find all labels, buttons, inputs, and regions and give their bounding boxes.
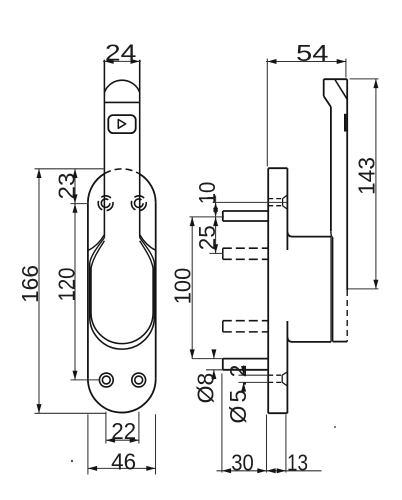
top screw hole cone base xyxy=(282,199,284,206)
bottom hole right inner xyxy=(135,376,143,384)
arrow 100 bottom xyxy=(190,349,195,358)
svg-text:22: 22 xyxy=(111,418,136,444)
arrow 143 top xyxy=(373,79,378,88)
arrow 120 top xyxy=(73,204,78,213)
ext line 30-13 middle xyxy=(266,415,268,473)
dim line 24 xyxy=(103,60,141,62)
arrow 24 left xyxy=(104,59,113,64)
dim line 30 and 13 xyxy=(217,470,322,472)
svg-text:Ø8: Ø8 xyxy=(192,373,218,404)
flare curve right outer xyxy=(140,235,156,251)
flare curve left mid xyxy=(90,238,105,263)
flare curve right mid xyxy=(140,238,155,263)
arrow dia8 top xyxy=(211,349,216,358)
blade lower left face line a xyxy=(330,238,332,342)
plate top arc hidden behind slider (dashed) xyxy=(104,169,139,174)
speck 1 xyxy=(71,460,73,462)
plate right edge xyxy=(155,203,157,379)
blade left fillet to lower face xyxy=(331,231,333,237)
arrow 22 right xyxy=(130,438,139,443)
top hole right outer (dashed) xyxy=(131,196,146,211)
svg-text:166: 166 xyxy=(17,265,43,303)
plate top arc left solid xyxy=(88,174,105,203)
arrow 25 top xyxy=(213,217,218,226)
svg-text:120: 120 xyxy=(54,268,80,302)
dim line 100 xyxy=(191,217,193,359)
upper ledge with fillet xyxy=(287,232,331,237)
svg-text:Ø5.2: Ø5.2 xyxy=(225,362,251,424)
arrow 22 left xyxy=(106,438,115,443)
arrow 23 top xyxy=(73,169,78,178)
ext line 54 left xyxy=(266,59,268,167)
blade left face upper xyxy=(323,79,325,96)
ext line 143 top xyxy=(350,78,379,80)
arrow 10 bottom xyxy=(213,208,218,217)
center line upper hidden stud xyxy=(210,252,224,254)
upper hidden stud end cap xyxy=(222,248,224,259)
arrow 30 left xyxy=(222,468,231,473)
lower stud bottom line xyxy=(223,369,268,371)
svg-text:100: 100 xyxy=(169,268,195,305)
arrow 13 left xyxy=(267,468,276,473)
dim line 46 xyxy=(88,467,156,469)
arrow 25 bottom xyxy=(213,244,218,253)
ext line 13 right xyxy=(285,415,287,473)
upper hidden stud bottom (dashed) xyxy=(223,258,268,260)
svg-text:25: 25 xyxy=(194,225,220,250)
arrow 30 right xyxy=(257,468,266,473)
top screw hole lower (dashed) xyxy=(268,205,282,207)
button rounded square xyxy=(108,115,135,133)
bottom screw hole cone base xyxy=(281,375,283,382)
top screw hole cone lower diagonal xyxy=(283,206,287,209)
top hole left outer (dashed) xyxy=(98,196,113,211)
ext line lower stud top for 100 xyxy=(192,358,223,360)
lower hidden stud end cap xyxy=(222,321,224,332)
lower stud end cap xyxy=(222,359,224,370)
arrow 166 bottom xyxy=(37,404,42,413)
arrow 46 left xyxy=(88,466,97,471)
ext line stud bottom for dia8 xyxy=(206,369,223,371)
blade left face mid xyxy=(330,107,332,231)
speck artifacts xyxy=(71,426,336,462)
side plate bottom edge xyxy=(268,412,287,414)
side plate right face upper xyxy=(286,168,288,250)
leader tick 10 xyxy=(208,197,216,199)
svg-text:10: 10 xyxy=(194,182,220,205)
svg-text:30: 30 xyxy=(231,449,254,475)
dim line 22 xyxy=(106,439,139,441)
svg-text:143: 143 xyxy=(353,157,379,195)
slider dome arc xyxy=(104,80,139,92)
bottom screw hole lower (dashed) xyxy=(268,381,282,383)
dim line dia8 xyxy=(213,350,215,380)
svg-text:13: 13 xyxy=(287,449,308,475)
arrow 54 right xyxy=(337,59,346,64)
play triangle xyxy=(118,120,125,129)
dim line 54 xyxy=(266,61,347,63)
arrow 54 left xyxy=(267,59,276,64)
slider right edge xyxy=(139,60,141,238)
ext line plate top xyxy=(35,168,104,170)
blade notch mark xyxy=(344,114,346,132)
flare curve right inner xyxy=(140,241,153,269)
oval recess outer xyxy=(90,263,155,349)
upper stud bottom line xyxy=(223,220,268,222)
top screw hole upper (dashed) xyxy=(268,198,282,200)
slider dome chord xyxy=(104,101,139,103)
arrow dia5.2 top xyxy=(241,366,246,375)
arrow 10 top xyxy=(213,202,218,211)
arrow 166 top xyxy=(37,169,42,178)
dim line dia5.2 xyxy=(243,366,245,393)
blade top edge xyxy=(324,78,348,80)
speck 2 xyxy=(334,426,336,428)
svg-text:46: 46 xyxy=(111,448,136,474)
blade right face hidden (dashed) xyxy=(346,290,348,342)
dim line 23 and 120 xyxy=(74,169,76,380)
bottom hole left outer xyxy=(99,373,113,387)
blade lower left face line b xyxy=(332,237,334,341)
lower hidden stud top (dashed) xyxy=(223,320,268,322)
dim line 10 and 25 xyxy=(215,196,217,254)
arrow 120 bottom xyxy=(73,371,78,380)
flare curve left outer xyxy=(88,235,104,251)
plate top arc right solid xyxy=(140,174,156,203)
arrow 13 right xyxy=(277,468,286,473)
svg-text:24: 24 xyxy=(105,40,137,66)
plate bottom arc xyxy=(88,379,156,413)
side plate right face lower xyxy=(286,321,288,413)
ext lines 46 xyxy=(88,414,156,474)
ext line plate bottom xyxy=(35,412,107,414)
oval recess inner xyxy=(91,269,153,344)
bottom hole right outer xyxy=(132,373,146,387)
arrow dia8 bottom xyxy=(211,370,216,379)
bottom screw hole upper (dashed) xyxy=(268,374,282,376)
top hole right inner xyxy=(135,199,144,208)
plate left edge xyxy=(87,203,89,379)
bottom hole left inner xyxy=(102,376,110,384)
flare curve left inner xyxy=(91,241,104,269)
arrow 23 bottom xyxy=(73,194,78,203)
ext line 30 left xyxy=(221,374,223,473)
lower stud top line xyxy=(223,358,268,360)
arrow dia5.2 bottom xyxy=(241,382,246,391)
blade top inner chamfer diagonal xyxy=(335,80,347,99)
lower hidden stud bottom (dashed) xyxy=(223,331,268,333)
arrow 46 right xyxy=(146,466,155,471)
upper hidden stud top (dashed) xyxy=(223,247,268,249)
top screw hole cone upper diagonal xyxy=(283,195,287,198)
blade bottom edge xyxy=(333,341,348,343)
arrow 143 bottom xyxy=(373,280,378,289)
center line top screw xyxy=(213,201,287,203)
svg-text:54: 54 xyxy=(296,40,329,66)
blade right face solid xyxy=(346,79,348,290)
bottom screw hole cone upper diagonal xyxy=(282,372,287,375)
arrow 100 top xyxy=(190,217,195,226)
svg-text:23: 23 xyxy=(54,173,80,200)
top hole left inner xyxy=(101,199,110,208)
center line upper stud xyxy=(190,216,225,218)
ext lines 22 xyxy=(106,412,139,444)
blade left jog diagonal xyxy=(324,96,331,107)
upper stud top line xyxy=(223,210,268,212)
ext line 54 right xyxy=(345,59,347,78)
dim line 143 xyxy=(375,79,377,289)
lower ledge with fillet xyxy=(287,337,331,342)
upper stud end cap xyxy=(222,211,224,221)
ext line 143 bottom xyxy=(348,288,379,290)
dim line 166 xyxy=(38,169,40,413)
arrow 24 right xyxy=(131,59,140,64)
side plate top edge xyxy=(268,167,287,169)
bottom screw hole cone lower diagonal xyxy=(282,382,287,385)
slider left edge xyxy=(103,60,105,238)
ext lines dia5.2 xyxy=(239,375,269,382)
ext line bottom hole centers xyxy=(71,379,100,381)
ext line top hole centers xyxy=(71,203,89,205)
side plate left face xyxy=(267,168,269,413)
